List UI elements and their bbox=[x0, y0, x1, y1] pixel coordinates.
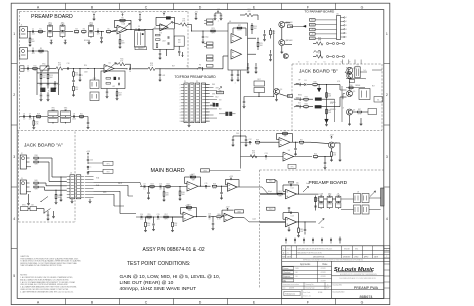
svg-text:J10: J10 bbox=[336, 13, 339, 15]
svg-text:R61: R61 bbox=[278, 191, 281, 193]
svg-text:Engineer: Engineer bbox=[283, 276, 291, 278]
revision table row lines bbox=[282, 249, 390, 251]
U8 output components bbox=[290, 141, 299, 143]
svg-text:86B123: 86B123 bbox=[138, 48, 143, 50]
op-amp U1A bbox=[117, 25, 127, 34]
upper main wire to stage row bbox=[241, 141, 253, 143]
cap on wire before U2 box bbox=[138, 28, 140, 30]
svg-text:R49: R49 bbox=[256, 139, 259, 141]
svg-text:C40: C40 bbox=[90, 160, 93, 162]
svg-text:R60: R60 bbox=[217, 214, 220, 216]
input jack J3 (jack board A) bbox=[20, 180, 26, 194]
op-amp U11 main row2 bbox=[224, 213, 234, 222]
main row1 mid components bbox=[212, 185, 216, 187]
row1b cap bbox=[32, 50, 34, 52]
fanout arrow symbol bbox=[219, 87, 222, 90]
svg-text:RLY: RLY bbox=[372, 86, 375, 88]
svg-text:N2: N2 bbox=[307, 61, 309, 63]
U7 feedback bbox=[226, 184, 228, 186]
svg-text:10: 10 bbox=[209, 219, 211, 221]
svg-text:1: 1 bbox=[386, 250, 387, 252]
jack B bottom vertical drops bbox=[349, 115, 351, 124]
svg-text:TIP: TIP bbox=[298, 80, 300, 82]
jack B row1 diode bbox=[304, 83, 306, 85]
svg-text:2N3904: 2N3904 bbox=[355, 85, 360, 87]
preamp board (bottom) dashed outline bbox=[260, 169, 385, 171]
preamp stage2 input wire (thick) bbox=[260, 220, 286, 222]
jack B plug 1 bbox=[295, 84, 300, 86]
preamp bottom decoupling stubs bbox=[285, 238, 287, 244]
net label box PA3 bbox=[310, 28, 316, 31]
svg-text:JACK BOARD "B": JACK BOARD "B" bbox=[299, 69, 338, 75]
U5 box inner res 2 bbox=[106, 83, 111, 85]
svg-text:LVL: LVL bbox=[377, 100, 380, 102]
cluster lower mark bbox=[363, 77, 366, 80]
preamp pot pair bank 2 bbox=[327, 197, 332, 202]
header J4/J5 (jack A to main board) bbox=[70, 175, 75, 199]
wire row1 jog to U1A bbox=[111, 30, 117, 32]
power arrow near C9 bbox=[93, 14, 95, 17]
U4A input stub components bbox=[202, 31, 204, 36]
main row2 wire bbox=[136, 216, 183, 218]
svg-text:C12: C12 bbox=[248, 139, 251, 141]
output connector bar at frame bbox=[381, 188, 384, 206]
main row2 cap C40 bbox=[140, 216, 142, 218]
svg-text:MAIN BOARD: MAIN BOARD bbox=[151, 168, 185, 174]
U3A feedback loop bbox=[156, 25, 160, 27]
row3 res R28 bbox=[36, 116, 40, 118]
svg-text:1: 1 bbox=[346, 17, 347, 19]
svg-text:R19: R19 bbox=[37, 114, 40, 116]
svg-text:PREAMP PWA: PREAMP PWA bbox=[354, 286, 379, 290]
svg-text:2: 2 bbox=[346, 21, 347, 23]
net label box PA5 bbox=[310, 37, 316, 40]
svg-text:U12: U12 bbox=[290, 188, 293, 190]
left cluster caps row bbox=[40, 94, 42, 96]
footswitch jumper circles 2 bbox=[336, 42, 338, 44]
U13 output pot arrow bbox=[297, 221, 317, 223]
svg-text:11: 11 bbox=[180, 115, 182, 117]
pot VR5 (dual gang) bbox=[48, 111, 58, 116]
jack B row3 components bbox=[304, 106, 308, 108]
upper stage junction stubs bbox=[295, 142, 297, 148]
net label box PA2 bbox=[310, 23, 316, 26]
main feed wire row A bbox=[94, 181, 141, 183]
main row1 exit jog bbox=[262, 187, 286, 194]
vertical ladder - resistor R16 bbox=[257, 42, 259, 46]
row2 input wire bbox=[21, 68, 41, 70]
caps above header (main board side) bbox=[87, 159, 89, 161]
svg-text:SW1: SW1 bbox=[22, 204, 26, 206]
U3 bottom stubs bbox=[159, 49, 161, 52]
svg-text:4/13/99: 4/13/99 bbox=[321, 272, 326, 274]
svg-text:U13: U13 bbox=[290, 215, 293, 217]
svg-text:G: G bbox=[361, 301, 364, 305]
U10 feedback bbox=[181, 213, 184, 215]
main row2 res R40 bbox=[147, 216, 151, 218]
wire Q1 collector to edge bbox=[285, 22, 290, 24]
vertical wires from top area into jack B bbox=[342, 60, 344, 65]
vertical ladder - cap C12 bbox=[264, 30, 266, 34]
jack B low components bbox=[357, 111, 361, 113]
op-amp U4B bbox=[231, 50, 242, 60]
svg-text:R34: R34 bbox=[304, 104, 307, 106]
big stage box U3 bbox=[153, 29, 174, 49]
cluster small box bbox=[349, 79, 354, 82]
U8 feedback bbox=[277, 139, 280, 141]
svg-text:R38: R38 bbox=[34, 155, 37, 157]
svg-text:Gain: Gain bbox=[306, 183, 310, 185]
U12 feedback caps bbox=[283, 190, 286, 192]
svg-text:Checked: Checked bbox=[283, 272, 290, 274]
U11 feedback loop bbox=[222, 214, 224, 216]
svg-text:GRN: GRN bbox=[212, 93, 215, 95]
power arrow +15 rail bbox=[217, 11, 219, 14]
svg-text:Q3: Q3 bbox=[280, 89, 282, 91]
U3 inner cap Ca bbox=[167, 36, 169, 38]
op-amp U9 stage row2 bbox=[283, 152, 294, 161]
svg-text:4: 4 bbox=[346, 29, 347, 31]
aux connector pair stack 3 bbox=[207, 55, 214, 58]
svg-text:R6: R6 bbox=[121, 17, 123, 19]
net label box input 2 bbox=[267, 207, 276, 210]
jack A bottom cluster grounds bbox=[47, 218, 50, 220]
svg-text:12: 12 bbox=[180, 118, 182, 120]
vertical ladder after U4 - resistor R15 bbox=[251, 25, 253, 29]
wire opto to row2 bbox=[94, 69, 96, 81]
row1b resistor bbox=[39, 50, 43, 52]
vertical ladder - cap C13 bbox=[270, 50, 272, 54]
slide pot VR4 bbox=[40, 66, 49, 70]
wire row1 after VR2 bbox=[65, 31, 73, 33]
aux connector pair stack 4 bbox=[207, 65, 214, 68]
row2 right vertical stub bbox=[159, 69, 161, 74]
side box right of U3 bbox=[174, 36, 184, 46]
sheet outer border bbox=[11, 3, 390, 304]
wire into U4A bbox=[192, 30, 229, 32]
svg-text:R51: R51 bbox=[300, 139, 303, 141]
TP dark box pair 1 bbox=[213, 103, 216, 107]
row3 wire after VR6 bbox=[71, 116, 89, 118]
U9 output bbox=[294, 156, 313, 158]
transistor Q2B small bbox=[283, 54, 288, 59]
revision table column lines bbox=[285, 246, 287, 258]
jack A bottom cluster small boxes bbox=[21, 207, 29, 211]
left zone tick dividers bbox=[11, 63, 17, 65]
net label box at preamp right edge mid bbox=[288, 95, 293, 98]
U5 box below stubs bbox=[106, 89, 108, 92]
svg-text:.1: .1 bbox=[234, 83, 235, 85]
row3 wire between pots bbox=[58, 116, 61, 118]
svg-text:.1: .1 bbox=[82, 75, 83, 77]
footswitch row 2 resistor bbox=[316, 55, 323, 59]
preamp pot pair bank 3 bbox=[336, 197, 341, 202]
long vertical bus right of U4 bbox=[273, 30, 275, 97]
svg-text:C7: C7 bbox=[29, 113, 31, 115]
ground stub under pot VR2 bbox=[64, 40, 66, 43]
transistor Q3 jack B bbox=[347, 67, 353, 73]
Q7 power arrow bbox=[331, 136, 333, 139]
U3 inner resistor Ra bbox=[156, 34, 161, 36]
main feed aux wire 2 bbox=[94, 193, 115, 195]
svg-text:N6: N6 bbox=[341, 61, 343, 63]
svg-text:R55: R55 bbox=[147, 214, 150, 216]
preamp op-amp U12 bbox=[286, 189, 297, 199]
svg-text:R43: R43 bbox=[150, 184, 153, 186]
labeled boxes right of caps bbox=[103, 161, 113, 165]
svg-text:Lo/pk: Lo/pk bbox=[252, 219, 256, 221]
svg-text:3: 3 bbox=[346, 25, 347, 27]
main feed aux wire 1 bbox=[94, 184, 129, 186]
upper stage row components bbox=[249, 141, 251, 143]
svg-text:C14: C14 bbox=[140, 214, 143, 216]
main row1 cap C33 bbox=[205, 185, 207, 187]
svg-text:MSL: MSL bbox=[296, 268, 299, 270]
svg-text:MSL/BK: MSL/BK bbox=[344, 248, 351, 250]
svg-text:P2: P2 bbox=[196, 81, 198, 83]
svg-text:1.0: 1.0 bbox=[140, 219, 142, 221]
power arrow above header bbox=[87, 153, 89, 156]
preamp stage1 input double wire bbox=[260, 193, 278, 195]
lamp curve symbol bbox=[314, 51, 321, 53]
svg-text:TP2: TP2 bbox=[107, 171, 110, 173]
relay output wire bbox=[360, 71, 367, 73]
U1A ground stub bbox=[119, 34, 121, 40]
wire relay box to right edge bbox=[372, 69, 382, 71]
preamp stage2 caps above bbox=[288, 210, 290, 213]
U6 feedback loop bbox=[185, 183, 188, 185]
U6 power arrow bbox=[190, 176, 192, 179]
op-amp U3A straddling box top bbox=[160, 24, 168, 31]
wires linking pot banks bbox=[305, 193, 319, 195]
jack B vertical res chain bbox=[326, 85, 328, 121]
main row1 stub ground 2 bbox=[163, 187, 165, 193]
svg-text:R33: R33 bbox=[304, 96, 307, 98]
svg-text:1: 1 bbox=[13, 32, 15, 36]
svg-text:NOTES:: NOTES: bbox=[20, 275, 28, 277]
left ladder res R22 bbox=[47, 74, 49, 78]
preamp right switch boxes bbox=[354, 194, 361, 203]
svg-text:DESCRIPTION: DESCRIPTION bbox=[313, 256, 325, 258]
pot boxes right mid bbox=[374, 97, 383, 103]
svg-text:R48: R48 bbox=[213, 183, 216, 185]
svg-text:1K: 1K bbox=[342, 108, 344, 110]
jack B row2 components bbox=[304, 98, 308, 100]
footswitch row resistor zigzag bbox=[316, 42, 323, 46]
U5 box inner caps bbox=[118, 77, 120, 79]
main row2 mid res bbox=[217, 216, 221, 218]
op-amp U4A bbox=[231, 34, 242, 44]
svg-text:R5: R5 bbox=[107, 29, 109, 31]
small box below U2 bbox=[135, 47, 147, 50]
U11 output bbox=[234, 217, 245, 219]
svg-text:R39: R39 bbox=[34, 159, 37, 161]
upper stage row2 wire bbox=[241, 155, 284, 157]
svg-text:40mVpp, 1kHZ SINE WAVE INPUT: 40mVpp, 1kHZ SINE WAVE INPUT bbox=[120, 286, 197, 292]
aux connector pair stack 1 bbox=[207, 19, 214, 22]
wire row1 to U1A bbox=[111, 31, 116, 33]
main feed wire row B bbox=[94, 190, 121, 192]
row2 series cap C18 bbox=[67, 67, 69, 69]
jack B relay coil rect bbox=[355, 67, 360, 78]
svg-text:.047: .047 bbox=[159, 189, 162, 191]
jack A bottom cluster caps bbox=[47, 211, 49, 214]
svg-text:C3: C3 bbox=[32, 48, 34, 50]
pot wiper wire to zigzag bbox=[173, 23, 181, 25]
preamp stage1 input res bbox=[278, 193, 282, 195]
row2 mid cap bbox=[265, 155, 267, 157]
row2 zigzag res bbox=[250, 155, 257, 159]
footswitch row 2 circles 2 bbox=[336, 55, 338, 57]
svg-text:SLV: SLV bbox=[298, 102, 301, 104]
TP dark box pair 2 bbox=[225, 112, 228, 116]
row3 vertical stub w ground bbox=[33, 117, 35, 122]
cluster lower wire bbox=[346, 77, 363, 79]
svg-text:P1: P1 bbox=[184, 81, 186, 83]
svg-text:4/13/99: 4/13/99 bbox=[321, 276, 326, 278]
svg-text:U3: U3 bbox=[154, 27, 156, 29]
U1A pot arrow across bbox=[119, 24, 130, 32]
svg-text:1.0: 1.0 bbox=[23, 119, 25, 121]
svg-text:1: 1 bbox=[386, 32, 388, 36]
mid cluster wires bbox=[244, 96, 274, 98]
svg-text:C1: C1 bbox=[32, 28, 34, 30]
jack B right vertical buses bbox=[334, 99, 336, 122]
svg-text:TEST POINT CONDITIONS:: TEST POINT CONDITIONS: bbox=[127, 261, 190, 267]
preamp pot pair bank 1 bbox=[319, 197, 324, 202]
svg-text:N7: N7 bbox=[349, 61, 351, 63]
resistor R1 bbox=[38, 31, 42, 33]
svg-text:6: 6 bbox=[346, 37, 347, 39]
TP box near stage bbox=[288, 164, 296, 168]
svg-text:4.7K: 4.7K bbox=[337, 81, 340, 83]
transistor Q1 bbox=[279, 22, 285, 28]
svg-text:C8: C8 bbox=[73, 113, 75, 115]
jack B row1 resistor bbox=[313, 84, 317, 86]
svg-text:Approvals: Approvals bbox=[300, 263, 311, 266]
svg-text:TO PARAMP BOARD: TO PARAMP BOARD bbox=[305, 9, 336, 13]
jack A vertical small parts bbox=[55, 194, 57, 198]
svg-text:Tolerances: Tolerances bbox=[285, 294, 295, 296]
main row1 cap C30 bbox=[143, 185, 145, 187]
stage2 below cap bbox=[304, 222, 306, 229]
U3A pot arrow across bbox=[162, 22, 173, 29]
svg-text:86B: 86B bbox=[178, 40, 181, 42]
main vertical bus into preamp stage rows bbox=[240, 70, 242, 168]
svg-text:ASSY P/N 06B674-01 & -02: ASSY P/N 06B674-01 & -02 bbox=[143, 247, 205, 253]
svg-text:R30: R30 bbox=[313, 82, 316, 84]
plug symbol row2 bbox=[197, 68, 202, 70]
svg-text:N5: N5 bbox=[332, 61, 334, 63]
svg-text:10: 10 bbox=[180, 112, 182, 114]
title block outline bbox=[282, 246, 384, 299]
svg-text:R23: R23 bbox=[211, 28, 214, 30]
svg-text:3: 3 bbox=[386, 155, 388, 159]
power arrow V+ at U1A bbox=[122, 14, 124, 17]
U5 pot arrow across bbox=[106, 63, 116, 71]
svg-text:.047: .047 bbox=[156, 219, 159, 221]
input jack J1 bbox=[20, 27, 28, 39]
svg-text:Q4: Q4 bbox=[353, 68, 355, 70]
approvals rows bbox=[282, 269, 332, 271]
U5 box inner dark mark bbox=[114, 77, 117, 80]
jack B plug 2 bbox=[295, 98, 300, 100]
svg-text:2: 2 bbox=[386, 256, 387, 258]
svg-text:+15: +15 bbox=[311, 29, 314, 31]
svg-text:R9: R9 bbox=[40, 48, 42, 50]
svg-text:SPKR B: SPKR B bbox=[330, 109, 336, 111]
left cluster side caps bbox=[54, 83, 56, 85]
U10 power arrow bbox=[186, 207, 188, 210]
ground below R2 bbox=[29, 44, 32, 46]
svg-text:FTS: FTS bbox=[311, 38, 314, 40]
svg-text:K1: K1 bbox=[356, 65, 358, 67]
jack B relay box mid bbox=[359, 89, 370, 100]
svg-text:3: 3 bbox=[13, 155, 15, 159]
jack A bottom cluster switch bbox=[44, 209, 51, 214]
jack B bottom down arrow and ground bbox=[325, 119, 329, 123]
U12 output bbox=[297, 193, 306, 195]
svg-text:.0022: .0022 bbox=[72, 119, 76, 121]
U3 inner cap Cb bbox=[167, 42, 169, 44]
power arrow near U2 bbox=[139, 14, 141, 17]
svg-text:Drawn: Drawn bbox=[283, 268, 288, 270]
main row2 exit jog to preamp bbox=[244, 218, 260, 222]
row2 junction dots bbox=[73, 68, 74, 69]
row3 end stub bbox=[87, 117, 89, 123]
svg-text:2: 2 bbox=[386, 93, 388, 97]
op-amp U10 main row2 bbox=[183, 212, 194, 222]
svg-text:U2: U2 bbox=[135, 28, 137, 30]
approvals header row bbox=[282, 265, 332, 267]
paramp connector J10 bbox=[337, 16, 341, 40]
row3 entry cap bbox=[23, 115, 25, 117]
svg-text:F: F bbox=[307, 301, 309, 305]
wire row1 to C2 bbox=[95, 31, 105, 33]
title block main divider bbox=[331, 261, 333, 298]
svg-text:10: 10 bbox=[205, 188, 207, 190]
svg-text:R37: R37 bbox=[358, 109, 361, 111]
svg-text:674: 674 bbox=[178, 42, 181, 44]
preamp right diag arrow bbox=[370, 192, 375, 197]
svg-text:Drawing Number: Drawing Number bbox=[333, 291, 345, 293]
main row2 mid cap bbox=[208, 216, 210, 218]
wires from net labels to J10 bbox=[315, 19, 336, 21]
main row1 stub ground 1 bbox=[148, 187, 150, 193]
jack A small resistors bbox=[34, 157, 38, 159]
svg-text:R3: R3 bbox=[75, 29, 77, 31]
row1b wire bbox=[27, 50, 48, 52]
preamp op-amp U13 bbox=[286, 217, 297, 227]
svg-text:4/13/99: 4/13/99 bbox=[321, 280, 326, 282]
svg-text:MSL: MSL bbox=[355, 248, 358, 250]
middle vertical chain res R23 bbox=[73, 72, 75, 76]
svg-text:USING SCOPE CH1 WITH 10X PROBE: USING SCOPE CH1 WITH 10X PROBE, REFER TO… bbox=[20, 289, 69, 291]
jack A ground under jack J3 bbox=[28, 194, 30, 204]
wire U1A output bbox=[127, 29, 153, 31]
U13 below ground bbox=[288, 227, 290, 230]
svg-text:R21: R21 bbox=[80, 114, 83, 116]
svg-text:RED: RED bbox=[212, 84, 215, 86]
row1b junction down to row2 bbox=[47, 51, 49, 66]
row3 cap C29 bbox=[73, 115, 75, 117]
svg-text:2: 2 bbox=[13, 93, 15, 97]
resistor R9 zigzag bbox=[180, 23, 187, 27]
netbox PROG on fanout bbox=[217, 91, 224, 94]
opto boxes pair 2 bbox=[90, 92, 99, 101]
svg-text:C2: C2 bbox=[97, 28, 99, 30]
svg-text:DRWN BY: DRWN BY bbox=[343, 256, 350, 258]
